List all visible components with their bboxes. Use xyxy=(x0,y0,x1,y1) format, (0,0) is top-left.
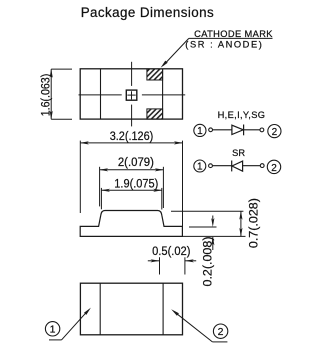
diode D2 pin 1 xyxy=(194,160,206,172)
side view outline xyxy=(80,211,182,237)
diode D2 cathode bar xyxy=(231,161,233,172)
svg-text:2: 2 xyxy=(272,127,278,138)
pin 1 callout xyxy=(45,322,59,336)
diode D1 pin 2 xyxy=(268,125,281,138)
wire xyxy=(213,129,232,131)
svg-text:Package Dimensions: Package Dimensions xyxy=(81,5,214,20)
svg-text:2(.079): 2(.079) xyxy=(118,155,154,169)
dimension 1.6(.063) xyxy=(51,69,72,119)
svg-text:1: 1 xyxy=(197,162,203,173)
svg-text:0.7(.028): 0.7(.028) xyxy=(247,198,261,248)
svg-text:CATHODE MARK: CATHODE MARK xyxy=(194,29,273,39)
wire xyxy=(243,165,261,167)
wire xyxy=(212,165,231,167)
bottom view right electrode line xyxy=(162,283,164,335)
pin 2 callout xyxy=(213,324,227,338)
diode D1 cathode bar xyxy=(243,125,245,136)
diode D2 terminal dot left xyxy=(209,164,213,168)
center target square xyxy=(126,90,137,100)
svg-text:0.2(.008): 0.2(.008) xyxy=(201,237,215,287)
bottom view left electrode line xyxy=(99,283,101,335)
diode D1 terminal dot left xyxy=(209,128,213,132)
svg-text:0.5(.02): 0.5(.02) xyxy=(152,244,190,258)
svg-text:H,E,I,Y,SG: H,E,I,Y,SG xyxy=(218,110,265,120)
svg-text:(SR : ANODE): (SR : ANODE) xyxy=(185,40,261,50)
svg-text:SR: SR xyxy=(232,148,245,158)
svg-text:2: 2 xyxy=(271,163,277,174)
diode D1 pin 1 xyxy=(194,124,206,136)
diode D1 terminal dot right xyxy=(260,128,264,132)
svg-text:1: 1 xyxy=(50,324,56,336)
top view package outline xyxy=(80,69,182,119)
svg-text:3.2(.126): 3.2(.126) xyxy=(110,129,154,143)
top view right electrode line xyxy=(162,69,164,119)
svg-text:1.6(.063): 1.6(.063) xyxy=(38,74,52,117)
diode D2 pin 2 xyxy=(267,160,280,173)
top view left electrode line xyxy=(100,69,102,119)
bottom view outline xyxy=(80,283,182,335)
wire xyxy=(244,129,260,131)
cathode mark hatch bottom xyxy=(147,109,163,119)
vertical centerline xyxy=(131,62,133,127)
svg-text:1: 1 xyxy=(197,126,203,137)
svg-text:2: 2 xyxy=(218,326,224,338)
horizontal centerline xyxy=(79,94,186,96)
diode D2 terminal dot right xyxy=(260,164,264,168)
center cross xyxy=(127,91,135,99)
svg-text:1.9(.075): 1.9(.075) xyxy=(114,177,158,191)
dimension 0.2(.008) xyxy=(189,216,217,251)
diode D2 triangle xyxy=(232,161,243,171)
dimension 0.7(.028) xyxy=(171,211,246,236)
diode D1 triangle xyxy=(232,125,243,134)
cathode mark hatch top xyxy=(147,69,163,80)
